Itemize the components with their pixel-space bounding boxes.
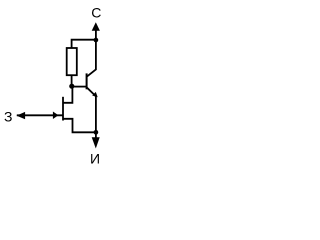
transistor Q1 emitter arrow (NPN) <box>92 92 98 97</box>
wire node A to base of Q1 <box>72 86 87 88</box>
wire node A down to drain of VT1 <box>63 86 72 103</box>
wire gate З to channel <box>17 114 63 116</box>
svg-text:С: С <box>91 5 101 21</box>
junction bottom node <box>94 130 99 135</box>
node З terminal label <box>4 109 12 125</box>
transistor Q1 base bar <box>86 73 88 89</box>
wire bottom junction to И arrow <box>95 132 97 138</box>
transistor VT1 gate arrow <box>53 112 59 120</box>
transistor VT1 source lead <box>63 119 96 133</box>
wire resistor bottom to node A <box>71 75 73 86</box>
node A junction dot <box>69 84 74 89</box>
transistor Q1 collector <box>87 40 96 77</box>
resistor R1 <box>67 48 77 75</box>
wire emitter down to bottom junction <box>95 96 97 132</box>
node C terminal label <box>91 5 101 21</box>
wire C arrow to top junction <box>95 30 97 40</box>
wire top horizontal to resistor <box>72 40 96 48</box>
node И terminal label <box>90 151 100 167</box>
terminal arrow C (up) <box>92 22 100 31</box>
terminal arrow З (left) <box>17 112 26 119</box>
terminal arrow И (down) <box>92 137 100 148</box>
svg-text:И: И <box>90 151 100 167</box>
transistor Q1 emitter <box>87 88 96 97</box>
junction top node <box>94 38 99 43</box>
svg-text:З: З <box>4 109 12 125</box>
transistor VT1 channel bar <box>62 97 64 121</box>
